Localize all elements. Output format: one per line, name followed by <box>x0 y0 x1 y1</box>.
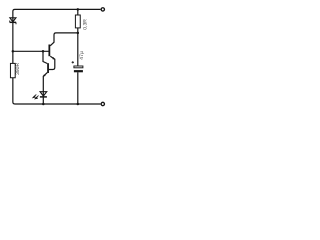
capacitor C1 plus sign <box>72 61 74 63</box>
transistor Q1 base bar <box>48 45 50 57</box>
node top rail resistor <box>77 8 80 11</box>
resistor R2 0,3R <box>75 15 80 28</box>
transistor Q1 collector <box>50 33 78 46</box>
svg-text:390R: 390R <box>15 63 21 75</box>
node collector sense junction <box>77 32 80 35</box>
transistor Q2 base bar <box>47 63 49 73</box>
wire resistor top lead <box>77 9 79 15</box>
LED D2 <box>40 92 47 97</box>
wire left rail base node to resistor <box>12 51 14 63</box>
transistor Q1 emitter with arrow <box>49 56 55 69</box>
wire left rail resistor to bottom rail and bottom rail <box>13 78 101 104</box>
transistor Q2 collector riser to base wire <box>43 51 47 63</box>
wire resistor bottom lead to node <box>77 28 79 33</box>
capacitor C1 plates <box>74 66 83 68</box>
terminal top right <box>101 8 104 11</box>
wire top rail and left rail <box>13 9 101 51</box>
LED arrows <box>33 94 38 98</box>
node Q2 collector on base wire <box>42 50 45 53</box>
wire capacitor to bottom rail <box>77 72 79 104</box>
node LED bottom <box>42 103 45 106</box>
svg-text:47µ: 47µ <box>79 51 85 60</box>
transistor Q2 emitter with arrow and wire down through LED <box>43 73 47 104</box>
node capacitor bottom <box>77 103 80 106</box>
resistor R1 390R <box>10 63 15 77</box>
wire base from left rail to Q1 <box>13 50 49 52</box>
node base junction on left rail <box>12 50 15 53</box>
terminal bottom right <box>101 102 104 105</box>
zener diode D1 <box>10 18 16 24</box>
svg-text:0,3R: 0,3R <box>82 19 88 30</box>
wire node to capacitor <box>77 33 79 66</box>
